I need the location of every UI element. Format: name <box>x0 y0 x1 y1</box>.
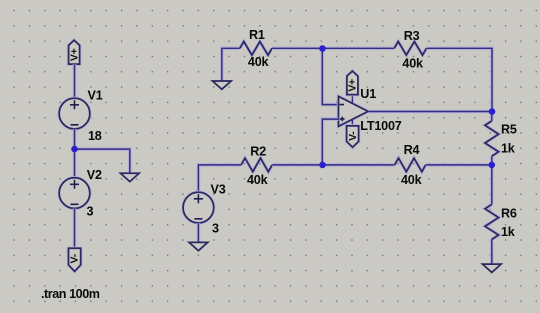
node C junction <box>319 162 326 169</box>
ground (R1 left) <box>213 81 232 89</box>
svg-text:3: 3 <box>87 205 94 219</box>
resistor R4 <box>395 158 426 172</box>
resistor R3 <box>394 42 426 56</box>
svg-text:.tran 100m: .tran 100m <box>41 287 100 301</box>
ground (mid battery) <box>121 173 140 181</box>
wire node C to op-amp non-inverting input <box>322 119 338 165</box>
wire node C to R4 <box>322 163 394 167</box>
svg-text:V+: V+ <box>347 79 359 92</box>
svg-text:U1: U1 <box>360 87 376 101</box>
flag V- (op-amp supply) <box>347 126 359 147</box>
svg-text:40k: 40k <box>248 55 270 69</box>
voltage source V3 <box>183 192 214 223</box>
svg-text:40k: 40k <box>247 173 269 187</box>
svg-text:R5: R5 <box>501 123 517 137</box>
svg-text:R6: R6 <box>501 207 517 221</box>
wire V2 to flag V- <box>73 208 77 248</box>
wire V1 to V2 <box>73 129 77 178</box>
node D junction <box>489 162 496 169</box>
resistor R1 <box>240 42 272 56</box>
flag V- (left supply) <box>69 248 81 271</box>
svg-text:40k: 40k <box>401 173 423 187</box>
svg-text:V+: V+ <box>68 48 80 61</box>
node junction V1/V2 <box>71 146 78 153</box>
flag V+ (op-amp supply) <box>347 71 359 95</box>
wire node A to R3 <box>322 46 394 50</box>
wire op-amp V+ stem <box>351 95 353 104</box>
node A junction <box>319 45 326 52</box>
svg-text:V3: V3 <box>211 182 226 196</box>
voltage source V2 <box>59 178 90 209</box>
svg-text:R2: R2 <box>250 145 266 159</box>
ground (R6) <box>483 264 502 272</box>
svg-text:1k: 1k <box>501 225 516 239</box>
svg-text:LT1007: LT1007 <box>360 119 401 133</box>
wire op-amp output to node B <box>368 110 492 114</box>
svg-text:1k: 1k <box>501 142 516 156</box>
op-amp U1 <box>339 96 369 126</box>
svg-text:3: 3 <box>212 221 219 235</box>
svg-text:V1: V1 <box>88 89 103 103</box>
wire V3 to ground3 <box>197 223 201 243</box>
wire R1 left to ground2 <box>222 48 240 81</box>
svg-text:V-: V- <box>69 253 81 263</box>
voltage source V1 <box>59 98 90 129</box>
resistor R5 <box>485 112 499 165</box>
wire flag V+ to V1 <box>73 64 77 98</box>
node B junction <box>489 108 496 115</box>
svg-text:R1: R1 <box>249 28 265 42</box>
wire R1 to node A <box>272 46 322 50</box>
resistor R6 <box>485 165 499 264</box>
svg-text:V2: V2 <box>87 168 102 182</box>
wire R2 to node C <box>272 163 322 167</box>
svg-text:V-: V- <box>347 131 359 141</box>
wire op-amp V- stem <box>351 119 353 126</box>
resistor R2 <box>241 158 272 172</box>
svg-text:18: 18 <box>88 129 102 143</box>
flag V+ (left supply) <box>68 40 80 64</box>
svg-text:R4: R4 <box>404 143 420 157</box>
svg-text:R3: R3 <box>404 29 420 43</box>
wire junction to ground1 <box>75 149 130 173</box>
wire R3 to output node <box>427 48 493 111</box>
wire R4 to node D <box>426 163 492 167</box>
wire R2 left to V3 <box>198 165 241 192</box>
svg-text:40k: 40k <box>402 57 424 71</box>
wire node A to op-amp inverting input <box>322 48 338 104</box>
ground (V3) <box>189 242 208 250</box>
